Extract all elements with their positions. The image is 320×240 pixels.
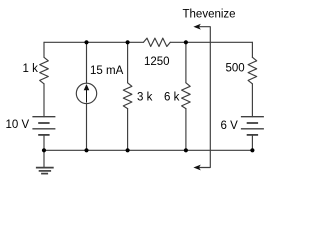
junction dot bottom rail / 6k [184, 148, 188, 152]
wire left branch between 1k and 10V battery [43, 84, 45, 117]
wire current source branch upper [86, 42, 88, 83]
svg-text:15 mA: 15 mA [90, 65, 124, 77]
battery V2 6V plates [241, 117, 264, 135]
svg-text:Thevenize: Thevenize [183, 8, 236, 20]
junction dot top rail / current source [84, 40, 88, 44]
wire top rail left segment [44, 41, 144, 43]
svg-text:10 V: 10 V [6, 119, 30, 131]
current source I1 circle [76, 83, 96, 103]
thevenize bottom arrowhead [193, 165, 200, 171]
wire left branch upper lead [43, 42, 45, 57]
svg-text:500: 500 [226, 63, 245, 75]
svg-text:1250: 1250 [144, 56, 170, 68]
wire 3k branch upper lead [127, 42, 129, 83]
wire 6k branch lower lead [185, 109, 187, 151]
wire right branch below battery [251, 135, 253, 150]
svg-text:1 k: 1 k [23, 63, 39, 75]
resistor 1250 zigzag [144, 38, 171, 46]
thevenize top arrowhead [193, 24, 200, 30]
junction dot bottom rail / current source [84, 148, 88, 152]
junction dot bottom rail / 3k [126, 148, 130, 152]
wire top rail right segment [170, 41, 252, 43]
wire bottom rail [44, 149, 252, 151]
wire 6k branch upper lead [185, 42, 187, 83]
junction dot bottom rail / 6V branch [250, 148, 254, 152]
wire ground stub [43, 150, 45, 167]
ground symbol [36, 168, 54, 174]
svg-text:6 V: 6 V [221, 120, 239, 132]
wire left branch below battery [43, 135, 45, 150]
thevenize indicator bracket [197, 27, 211, 168]
junction dot top rail / 3k [126, 40, 130, 44]
current source I1 arrow [84, 84, 90, 103]
wire current source branch lower [86, 104, 88, 151]
wire right branch between 500 and 6V battery [251, 84, 253, 117]
resistor R 6k zigzag [182, 83, 191, 109]
junction dot top rail / 6k [184, 40, 188, 44]
wire 3k branch lower lead [127, 109, 129, 151]
wire right branch upper lead [251, 42, 253, 57]
battery V1 10V plates [32, 117, 55, 135]
junction dot bottom rail / ground [42, 148, 46, 152]
resistor R 1k zigzag [40, 57, 49, 84]
svg-text:6 k: 6 k [164, 91, 180, 103]
svg-text:3 k: 3 k [137, 91, 153, 103]
resistor R 500 zigzag [248, 57, 257, 84]
resistor R 3k zigzag [123, 83, 132, 109]
